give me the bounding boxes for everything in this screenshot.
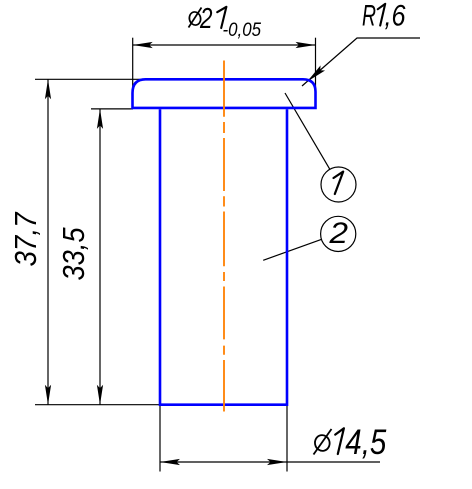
dim text dia14.5: phi symbol [314,429,332,455]
part body outline [159,109,289,405]
svg-text:,6: ,6 [385,0,406,33]
svg-text:33,5: 33,5 [56,227,91,281]
svg-text:2: 2 [328,217,348,250]
arrow dia14.5 left [160,459,180,465]
leader balloon 1 [285,93,330,169]
part head outline [131,79,317,108]
extension line top-of-head [35,78,160,80]
extension line bottom-of-body [35,404,159,406]
leader R1.6 [302,38,420,86]
balloon 1 label [334,172,344,194]
extension line bottom-of-head [91,108,133,110]
svg-text:-0,05: -0,05 [223,19,262,41]
svg-text:R: R [362,0,376,33]
centerline axis [223,61,225,412]
arrow dia14.5 right [267,459,287,465]
dim text R1.6: digit 1 (custom) [378,4,385,26]
leader balloon 2 [263,239,321,260]
balloon 1 circle [321,167,356,202]
arrow dia21 right [296,42,316,48]
extension line dia21 right [315,38,317,90]
svg-text:37,7: 37,7 [8,211,43,267]
svg-text:2: 2 [199,3,212,35]
arrow 33.5 bottom [97,385,103,405]
dim text dia21: phi symbol [188,8,202,28]
balloon 2 circle [321,216,356,251]
dimension line 37.7 [47,79,49,404]
arrow 37.7 top [45,79,51,99]
dimension line dia21 [133,44,316,46]
svg-text:4,5: 4,5 [345,423,386,462]
dim text dia21: digit 1 (custom) [217,7,226,28]
dimension line 33.5 [99,109,101,405]
extension line dia14.5 left [159,405,161,472]
extension line dia14.5 right [286,405,288,472]
dimension line dia14.5 [160,461,380,463]
dim text dia14.5: digit 1 (custom) [335,428,344,454]
extension line dia21 left [132,38,134,92]
arrow dia21 left [133,42,153,48]
arrow 33.5 top [97,109,103,129]
arrow R1.6 [307,65,325,81]
arrow 37.7 bottom [45,385,51,405]
